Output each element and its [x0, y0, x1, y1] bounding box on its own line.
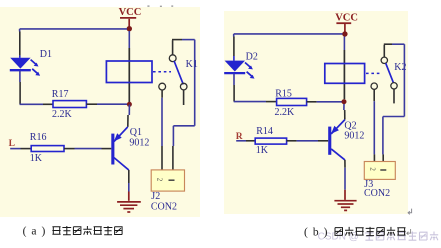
label CON2 (J2) [151, 201, 177, 212]
junction dot center-right [342, 99, 347, 104]
switch K2 NO contact [391, 83, 397, 89]
dotted link relay K1 to switch [153, 71, 171, 73]
svg-text:R16: R16 [30, 132, 47, 143]
label K1 [186, 59, 198, 70]
svg-text:Q1: Q1 [130, 127, 142, 138]
connector J2 [151, 170, 184, 191]
svg-text:D1: D1 [40, 49, 52, 60]
caption (a) heating system relay [23, 226, 123, 238]
dotted link relay K2 to switch [366, 72, 380, 74]
relay K2 coil box [325, 64, 365, 84]
resistor R16 [31, 146, 64, 152]
relay coil feed-through pin (left) [128, 48, 130, 102]
label R17 [52, 89, 69, 100]
right schematic panel background [224, 11, 409, 214]
wire: LED D2 branch down [233, 34, 235, 61]
label J2 [151, 191, 160, 202]
left schematic panel background [0, 7, 200, 217]
stub: K1 NO contact [183, 90, 185, 105]
svg-text:9012: 9012 [129, 138, 149, 149]
svg-text:L: L [9, 139, 15, 149]
svg-text:1K: 1K [30, 153, 43, 164]
LED D1 [10, 58, 40, 76]
label K2 [394, 62, 406, 73]
label 1K (R14) [256, 145, 269, 156]
wire: K1 loop to J2 [173, 126, 195, 170]
label D1 [40, 49, 52, 60]
ground (left) [117, 202, 141, 212]
wire: below LED D1 [19, 71, 21, 105]
relay coil feed-through pin (right) [343, 50, 345, 99]
resistor R14 [255, 138, 286, 144]
connector J3 [364, 162, 395, 180]
wire: below LED D2 [233, 74, 235, 102]
svg-text:2: 2 [156, 178, 164, 182]
junction dot center-left [127, 102, 132, 107]
svg-text:CON2: CON2 [364, 188, 390, 199]
svg-text:(a): (a) [23, 226, 51, 238]
wire: K1 loop right side down [194, 40, 196, 126]
svg-text:1K: 1K [256, 145, 269, 156]
switch K1 NO contact [180, 83, 187, 90]
label 2.2K (R17) [52, 109, 73, 120]
svg-text:VCC: VCC [335, 12, 358, 23]
wire: bottom rail to R17 [20, 103, 53, 105]
svg-text:2.2K: 2.2K [52, 109, 73, 120]
switch K2 blade [386, 63, 394, 82]
switch K1 common contact [169, 55, 176, 62]
label L input [9, 139, 15, 149]
wire: K1 NC contact down to J2 [161, 90, 163, 170]
resistor R15 [277, 98, 307, 105]
wire: R to R14 [236, 140, 255, 142]
watermark CSDN [318, 231, 439, 242]
label 1K (R16) [30, 153, 43, 164]
svg-text:J2: J2 [151, 191, 160, 202]
svg-text:R17: R17 [52, 89, 69, 100]
label 2.2K (R15) [275, 107, 296, 118]
resistor R17 [53, 101, 86, 108]
wire: R16 to Q1 base [64, 148, 111, 150]
label R14 [256, 126, 273, 137]
transistor Q1 [111, 127, 129, 170]
LED D2 [224, 61, 254, 79]
label 9012 (Q1) [129, 138, 149, 149]
wire: R14 to Q2 base [287, 140, 329, 142]
wire: L to R16 [10, 148, 31, 150]
switch K2 common contact [381, 57, 387, 63]
label 9012 (Q2) [344, 130, 364, 141]
svg-text:R15: R15 [275, 88, 292, 99]
svg-text:K1: K1 [186, 59, 198, 70]
power VCC (left) [119, 7, 142, 27]
wire: K1 common up and over [172, 40, 195, 55]
wire: R17 to center junction [86, 103, 127, 105]
caption (b) fan system relay [304, 227, 406, 239]
svg-text:VCC: VCC [119, 7, 142, 18]
junction dot VCC-right [342, 31, 347, 36]
wire: relay to transistor Q2 emitter [343, 104, 346, 120]
wire: VCC dot down to relay K2 [343, 37, 345, 51]
paragraph mark after caption (b) [407, 229, 411, 235]
switch K2 NC contact [371, 83, 377, 89]
ground (right) [334, 201, 356, 211]
svg-text:2: 2 [368, 167, 376, 171]
switch K1 blade [174, 61, 183, 84]
svg-text:9012: 9012 [344, 130, 364, 141]
wire: Q1 collector to ground [128, 170, 130, 201]
wire: relay to transistor Q1 emitter [128, 105, 130, 127]
wire: K2 common up and over [384, 44, 405, 57]
wire: K2 NC contact down to J3 [373, 89, 375, 161]
wire: K2 loop right side down [403, 44, 405, 116]
wire: left top rail [20, 28, 127, 30]
svg-text:R14: R14 [256, 126, 273, 137]
label R16 [30, 132, 47, 143]
stray dashes above left panel [147, 6, 173, 7]
junction dot VCC-left [127, 26, 132, 31]
wire: Q2 collector to ground [344, 160, 346, 200]
relay K1 coil box [106, 61, 152, 83]
wire: R15 to center junction [307, 101, 342, 103]
transistor Q2 [328, 120, 345, 160]
wire: LED branch down [19, 29, 21, 58]
switch K1 NC contact [159, 83, 166, 90]
paragraph mark right margin [408, 209, 412, 215]
wire: bottom rail to R15 [234, 101, 277, 103]
label R input [236, 132, 243, 142]
svg-text:D2: D2 [246, 51, 258, 62]
wire: VCC dot down to relay [128, 31, 130, 48]
svg-text:CON2: CON2 [151, 201, 177, 212]
svg-text:2.2K: 2.2K [275, 107, 296, 118]
wire: K2 loop to J3 [383, 117, 405, 162]
label CON2 (J3) [364, 188, 390, 199]
stub: K2 NO contact [393, 89, 395, 103]
svg-text:(b): (b) [304, 227, 332, 239]
label R15 [275, 88, 292, 99]
label Q1 [130, 127, 142, 138]
label J3 [364, 179, 373, 190]
wire: right top rail [234, 33, 343, 35]
power VCC (right) [335, 12, 358, 32]
label D2 [246, 51, 258, 62]
label Q2 [344, 121, 356, 132]
